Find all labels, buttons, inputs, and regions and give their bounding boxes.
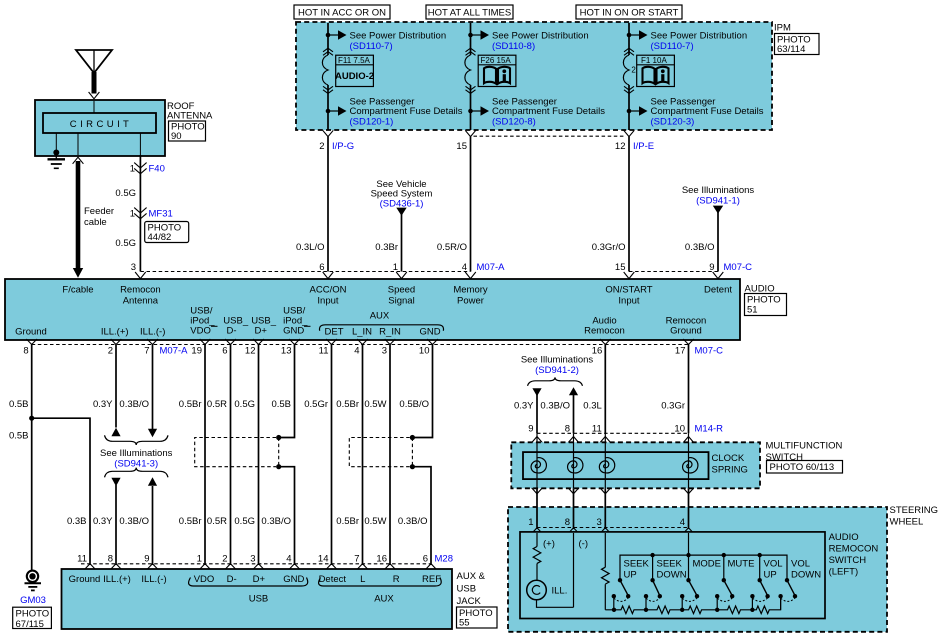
wires through clock spring — [537, 433, 689, 488]
switch MUTE — [715, 578, 734, 610]
connector M14-R dashed line — [537, 432, 689, 434]
svg-text:DET: DET — [325, 327, 344, 338]
svg-text:PHOTO 60/113: PHOTO 60/113 — [770, 462, 835, 473]
feeder cable (thick coax) — [76, 161, 81, 269]
svg-text:ACC/ON: ACC/ON — [310, 285, 347, 296]
USB group bracket (jack side) — [189, 578, 308, 587]
steering wires over box — [537, 507, 689, 528]
wire fuse column 1 — [327, 23, 329, 130]
svg-text:USB: USB — [249, 594, 269, 605]
svg-text:ILL.: ILL. — [552, 586, 568, 597]
fuse label box F1 with book icon — [637, 55, 675, 86]
svg-text:3: 3 — [250, 554, 255, 565]
wire fuse column 2 — [470, 23, 472, 130]
svg-text:0.3B/O: 0.3B/O — [119, 516, 149, 527]
svg-text:M28: M28 — [435, 554, 453, 565]
audio unit box — [5, 279, 740, 340]
svg-text:0.3L/O: 0.3L/O — [296, 242, 325, 253]
connector M07-A dashed line — [140, 271, 470, 273]
pin 15 chevron — [465, 130, 476, 136]
clock spring coil 4 — [683, 458, 698, 473]
svg-text:ILL.(-): ILL.(-) — [140, 327, 165, 338]
switch SEEK DOWN — [644, 578, 662, 610]
shield dashed box USB — [195, 438, 276, 467]
svg-text:0.5Br: 0.5Br — [336, 516, 359, 527]
power label HOT IN ACC OR ON — [294, 5, 390, 19]
wire 3 lead with resistor — [604, 533, 606, 610]
arrow into speed wire — [396, 208, 406, 216]
shield dashed box AUX — [349, 438, 409, 467]
svg-text:0.5W: 0.5W — [364, 516, 386, 527]
wire ILL(-) 0.3B/O upper — [152, 345, 154, 430]
svg-text:12: 12 — [615, 141, 626, 152]
svg-text:UP: UP — [624, 570, 637, 581]
svg-text:VOL: VOL — [791, 559, 810, 570]
svg-text:R_IN: R_IN — [379, 327, 401, 338]
svg-text:0.5R/O: 0.5R/O — [437, 242, 467, 253]
svg-text:D+: D+ — [253, 574, 266, 585]
brace lower SD941-3 — [105, 468, 169, 478]
svg-text:(SD120-1): (SD120-1) — [350, 116, 394, 127]
svg-text:See Illuminations: See Illuminations — [682, 185, 755, 196]
svg-text:MULTIFUNCTION: MULTIFUNCTION — [766, 441, 843, 452]
switch MODE — [680, 578, 699, 610]
svg-text:ILL.(+): ILL.(+) — [101, 327, 129, 338]
svg-text:ANTENNA: ANTENNA — [167, 111, 213, 122]
wire AUX GND 0.5B/O with shield drain — [412, 345, 432, 564]
ground at roof antenna — [53, 150, 59, 156]
clock spring coil 1 — [531, 458, 546, 473]
svg-text:3: 3 — [131, 262, 136, 273]
svg-text:AUDIO: AUDIO — [829, 532, 859, 543]
svg-text:0.3B: 0.3B — [67, 516, 87, 527]
jack pin chevrons — [85, 564, 437, 570]
svg-text:16: 16 — [376, 554, 387, 565]
clock spring pin chevrons bottom — [532, 488, 694, 494]
svg-text:AUX: AUX — [374, 594, 394, 605]
svg-text:0.5B: 0.5B — [9, 399, 29, 410]
svg-text:0.5R: 0.5R — [207, 399, 227, 410]
svg-text:GND: GND — [419, 327, 440, 338]
shield drain nodes AUX — [410, 435, 415, 440]
svg-text:AUDIO-2: AUDIO-2 — [335, 71, 374, 82]
pin 12 chevron I/P-E — [624, 130, 635, 136]
svg-text:0.3Y: 0.3Y — [93, 516, 113, 527]
wire 4 lead — [688, 533, 690, 555]
svg-text:4: 4 — [286, 554, 291, 565]
svg-text:0.5B: 0.5B — [9, 431, 29, 442]
svg-text:0.5G: 0.5G — [234, 399, 255, 410]
svg-text:2: 2 — [108, 346, 113, 357]
wire to lamp — [536, 564, 538, 581]
svg-text:0.3L: 0.3L — [583, 401, 602, 412]
svg-text:I/P-G: I/P-G — [332, 141, 354, 152]
feeder cable arrowhead into audio — [73, 268, 83, 278]
svg-text:9: 9 — [528, 424, 533, 435]
photo ref 55 — [457, 607, 498, 629]
audio bottom pin chevrons — [26, 339, 693, 345]
svg-text:MF31: MF31 — [149, 208, 173, 219]
svg-text:19: 19 — [191, 346, 202, 357]
svg-text:VDO: VDO — [194, 574, 215, 585]
svg-text:See Power Distribution: See Power Distribution — [492, 30, 589, 41]
svg-text:2: 2 — [222, 554, 227, 565]
svg-text:WHEEL: WHEEL — [890, 517, 924, 528]
circuit block — [43, 113, 156, 133]
svg-text:8: 8 — [565, 424, 570, 435]
svg-text:8: 8 — [565, 517, 570, 528]
wire ACC/ON input 0.3L/O — [327, 137, 329, 272]
node junction col3 top — [627, 33, 632, 38]
svg-text:See Power Distribution: See Power Distribution — [350, 30, 447, 41]
svg-text:HOT IN ON OR START: HOT IN ON OR START — [580, 8, 679, 19]
svg-text:IPM: IPM — [774, 23, 791, 34]
svg-text:AUX: AUX — [370, 311, 390, 322]
wire branch 0.3B to jack ground — [32, 418, 90, 564]
svg-text:M07-C: M07-C — [695, 346, 724, 357]
svg-text:DOWN: DOWN — [791, 570, 821, 581]
svg-text:6: 6 — [423, 554, 428, 565]
svg-text:63/114: 63/114 — [777, 44, 805, 55]
wire memory power 0.5R/O — [470, 137, 472, 272]
node junction col1 bottom — [326, 109, 331, 114]
svg-text:4: 4 — [354, 346, 359, 357]
shield drain nodes — [276, 435, 281, 440]
svg-text:(-): (-) — [579, 539, 589, 550]
svg-text:Speed: Speed — [388, 285, 415, 296]
svg-text:0.5R: 0.5R — [207, 516, 227, 527]
svg-text:8: 8 — [108, 554, 113, 565]
svg-text:0.5Br: 0.5Br — [336, 399, 359, 410]
svg-text:11: 11 — [592, 424, 602, 435]
svg-text:REF: REF — [422, 574, 441, 585]
svg-text:(SD110-7): (SD110-7) — [651, 41, 694, 52]
svg-text:I/P-E: I/P-E — [633, 141, 654, 152]
svg-text:AUX &: AUX & — [457, 571, 486, 582]
wire ground 0.5B from audio pin 8 — [31, 345, 33, 571]
svg-text:1: 1 — [130, 208, 135, 219]
svg-text:HOT IN ACC OR ON: HOT IN ACC OR ON — [298, 8, 386, 19]
arrow up illum return — [569, 387, 578, 395]
svg-text:DOWN: DOWN — [657, 570, 687, 581]
svg-text:F11 7.5A: F11 7.5A — [338, 56, 371, 65]
svg-text:0.5B/O: 0.5B/O — [399, 399, 429, 410]
svg-text:Detent: Detent — [704, 285, 732, 296]
svg-text:F26 15A: F26 15A — [481, 56, 512, 65]
steering wheel (dashed box) — [508, 507, 887, 632]
svg-text:Input: Input — [317, 296, 338, 307]
svg-text:JACK: JACK — [457, 596, 482, 607]
svg-text:CLOCK: CLOCK — [712, 453, 745, 464]
svg-text:12: 12 — [245, 346, 256, 357]
resistor ILL — [533, 547, 541, 564]
lamp return wire — [537, 600, 574, 608]
svg-text:cable: cable — [84, 217, 107, 228]
svg-text:C I R C U I T: C I R C U I T — [70, 119, 129, 130]
clock spring pin chevrons top — [532, 437, 694, 443]
wire detent 0.3B/O — [717, 212, 719, 272]
wire ill- lead — [573, 533, 575, 607]
lamp ILL — [527, 580, 547, 600]
svg-text:90: 90 — [171, 131, 182, 142]
resistor ladder — [605, 596, 780, 613]
wire ILL(-) 0.3B/O lower — [152, 486, 154, 564]
svg-text:GND: GND — [283, 326, 304, 337]
svg-text:Ground: Ground — [15, 327, 47, 338]
wire USB GND 0.5B with shield drain — [279, 345, 295, 564]
svg-text:F1 10A: F1 10A — [641, 56, 667, 65]
svg-text:REMOCON: REMOCON — [829, 544, 879, 555]
svg-text:SEEK: SEEK — [624, 559, 650, 570]
antenna lead (thick) — [92, 72, 97, 94]
svg-text:14: 14 — [318, 554, 329, 565]
photo ref 90 — [169, 121, 206, 142]
svg-text:M14-R: M14-R — [695, 424, 724, 435]
node junction ground branch — [29, 416, 34, 421]
svg-text:Ground: Ground — [69, 574, 101, 585]
svg-text:0.5Gr: 0.5Gr — [304, 399, 328, 410]
AUX group bracket (jack side) — [319, 578, 442, 587]
photo ref 67/115 — [13, 607, 52, 630]
clock spring coil 2 — [568, 458, 583, 473]
svg-text:0.5W: 0.5W — [364, 399, 386, 410]
connector dashed line audio bottom — [32, 344, 689, 346]
node junction col2 bottom — [468, 109, 473, 114]
svg-text:D-: D- — [227, 574, 237, 585]
audio remocon switch box — [520, 532, 825, 619]
inline connector chevrons above fuse F26 — [466, 48, 476, 55]
svg-text:UP: UP — [764, 570, 777, 581]
wire AUX detect 0.5Gr — [331, 345, 333, 564]
svg-text:M07-C: M07-C — [724, 262, 753, 273]
wire 0.3B/O to clock spring — [573, 395, 575, 434]
wire AUX L 0.5Br — [362, 345, 364, 564]
svg-text:Ground: Ground — [670, 326, 702, 337]
see power distribution arrow col2 — [471, 34, 481, 36]
svg-text:1: 1 — [130, 163, 135, 174]
svg-text:0.5B: 0.5B — [271, 399, 291, 410]
svg-text:(SD120-3): (SD120-3) — [651, 116, 695, 127]
svg-text:ILL.(-): ILL.(-) — [141, 574, 166, 585]
fuse label box AUDIO-2 — [335, 55, 374, 86]
svg-text:(+): (+) — [543, 539, 555, 550]
brace SD941-2 — [528, 377, 583, 385]
wire ON/START input 0.3Gr/O — [628, 137, 630, 272]
resistor wire3 — [602, 567, 610, 584]
svg-text:L_IN: L_IN — [352, 327, 372, 338]
svg-text:7: 7 — [354, 554, 359, 565]
remocon pin chevrons — [532, 528, 694, 534]
svg-text:9: 9 — [144, 554, 149, 565]
fuse F11 7.5A — [322, 55, 328, 85]
svg-text:0.3Y: 0.3Y — [514, 401, 534, 412]
inline connector chevrons below fuse F26 — [466, 86, 476, 93]
arrow into detent wire — [713, 206, 723, 214]
svg-text:44/82: 44/82 — [148, 232, 172, 243]
svg-text:VOL: VOL — [764, 559, 783, 570]
svg-text:0.3Br: 0.3Br — [375, 242, 398, 253]
svg-text:USB: USB — [457, 584, 477, 595]
wire AUX R 0.5W — [389, 345, 391, 564]
remocon connector dashed line — [537, 527, 689, 529]
wire 0.3Y to clock spring — [536, 395, 538, 434]
svg-text:Feeder: Feeder — [84, 206, 114, 217]
svg-text:0.3B/O: 0.3B/O — [119, 399, 149, 410]
svg-text:Signal: Signal — [388, 296, 414, 307]
see passenger fuse arrow col2 — [471, 110, 481, 112]
inline connector chevrons above fuse F1 — [624, 48, 634, 55]
svg-text:SWITCH: SWITCH — [829, 555, 867, 566]
svg-text:R: R — [393, 574, 400, 585]
inline connector chevrons above fuse F11 — [323, 48, 333, 55]
svg-text:See Illuminations: See Illuminations — [100, 448, 173, 459]
connector I/P-E dashed line — [474, 135, 626, 137]
clock spring inner box — [523, 452, 709, 479]
node junction col2 top — [468, 33, 473, 38]
wire USB D+ 0.5G — [258, 345, 260, 564]
svg-text:11: 11 — [77, 554, 87, 565]
svg-text:See Power Distribution: See Power Distribution — [651, 30, 748, 41]
svg-text:1: 1 — [528, 517, 533, 528]
svg-text:0.5Br: 0.5Br — [179, 399, 202, 410]
svg-text:M07-A: M07-A — [160, 346, 189, 357]
svg-text:Input: Input — [618, 296, 639, 307]
svg-text:Detect: Detect — [319, 574, 347, 585]
svg-text:(LEFT): (LEFT) — [829, 567, 859, 578]
wire ILL(+) 0.3Y upper — [115, 345, 117, 428]
svg-text:0.3B/O: 0.3B/O — [261, 516, 291, 527]
svg-text:0.5G: 0.5G — [115, 238, 136, 249]
roof antenna box — [35, 100, 165, 156]
svg-text:7: 7 — [144, 346, 149, 357]
svg-text:15: 15 — [615, 262, 626, 273]
svg-text:16: 16 — [592, 346, 603, 357]
svg-text:0.5G: 0.5G — [115, 188, 136, 199]
svg-text:GND: GND — [283, 574, 304, 585]
svg-text:0.3B/O: 0.3B/O — [398, 516, 428, 527]
connector M07-C dashed line — [629, 271, 718, 273]
see passenger fuse arrow col3 — [629, 110, 639, 112]
photo ref 44/82 — [145, 222, 189, 244]
aux and usb jack box — [62, 569, 453, 629]
svg-text:(SD110-7): (SD110-7) — [350, 41, 393, 52]
svg-text:1: 1 — [197, 554, 202, 565]
inline connector chevrons below fuse F1 — [624, 86, 634, 93]
svg-text:ILL.(+): ILL.(+) — [103, 574, 131, 585]
arrow up from jack ILL(-) — [148, 477, 157, 486]
svg-text:0.5G: 0.5G — [234, 516, 255, 527]
wire USB D- 0.5R — [230, 345, 232, 564]
see passenger fuse arrow col1 — [328, 110, 338, 112]
svg-text:2: 2 — [631, 66, 636, 75]
svg-text:See Illuminations: See Illuminations — [521, 355, 594, 366]
svg-text:AUDIO: AUDIO — [745, 284, 775, 295]
svg-text:(SD941-1): (SD941-1) — [696, 196, 740, 207]
svg-text:0.3B/O: 0.3B/O — [540, 401, 570, 412]
svg-text:Remocon: Remocon — [584, 326, 625, 337]
svg-text:4: 4 — [680, 517, 685, 528]
svg-text:0.3Gr/O: 0.3Gr/O — [592, 242, 626, 253]
node junction col1 top — [326, 33, 331, 38]
svg-text:F/cable: F/cable — [62, 285, 93, 296]
svg-text:3: 3 — [597, 517, 602, 528]
svg-text:D-: D- — [227, 326, 237, 337]
svg-text:0.3B/O: 0.3B/O — [685, 242, 715, 253]
svg-text:Antenna: Antenna — [123, 296, 159, 307]
svg-text:ON/START: ON/START — [605, 285, 652, 296]
photo ref 60/113 — [767, 461, 843, 474]
svg-text:VDO: VDO — [190, 326, 211, 337]
svg-text:D+: D+ — [255, 326, 268, 337]
connector M28 dashed line — [81, 563, 431, 565]
svg-text:10: 10 — [419, 346, 430, 357]
ladder tap nodes — [612, 608, 616, 612]
inline connector chevrons below fuse F11 — [323, 86, 333, 93]
wires clock spring to steering wheel — [537, 488, 689, 527]
svg-text:F40: F40 — [149, 163, 165, 174]
svg-text:0.3Y: 0.3Y — [93, 399, 113, 410]
feeder cable chevron up — [73, 157, 84, 164]
wire remocon antenna 0.5G — [139, 155, 141, 272]
svg-text:13: 13 — [281, 346, 292, 357]
internal leads — [93, 101, 95, 113]
svg-text:Remocon: Remocon — [120, 285, 161, 296]
switch VOL UP — [750, 578, 770, 610]
svg-text:Memory: Memory — [453, 285, 488, 296]
svg-text:M07-A: M07-A — [477, 262, 506, 273]
power label HOT AT ALL TIMES — [426, 5, 513, 19]
switch common rail — [620, 555, 787, 580]
svg-text:55: 55 — [459, 618, 470, 629]
wire ill+ lead — [536, 533, 538, 547]
ground GM03 — [27, 571, 38, 582]
fuse label box F26 with book icon — [478, 55, 516, 86]
antenna mast symbol — [76, 50, 112, 73]
wire fuse column 3 — [628, 23, 630, 130]
wire USB VDO 0.5Br — [204, 345, 206, 564]
svg-text:51: 51 — [747, 305, 758, 316]
inline connector F40 — [134, 163, 146, 174]
arrowhead into roof antenna box — [89, 92, 100, 99]
svg-text:SPRING: SPRING — [712, 465, 748, 476]
svg-text:STEERING: STEERING — [890, 505, 939, 516]
brace upper SD941-3 — [105, 435, 169, 445]
fuse F26 15A — [465, 55, 471, 85]
see power distribution arrow col1 — [328, 34, 338, 36]
pin 2 chevron I/P-G — [323, 130, 334, 136]
see power distribution arrow col3 — [629, 34, 639, 36]
svg-text:11: 11 — [319, 346, 329, 357]
svg-text:(SD110-8): (SD110-8) — [492, 41, 535, 52]
svg-text:6: 6 — [222, 346, 227, 357]
arrow up ILL(+) — [111, 428, 120, 437]
IPM smart junction box (dashed) — [296, 22, 772, 130]
wire 0.3Gr remocon ground — [688, 345, 690, 434]
fuse F1 10A — [623, 55, 629, 85]
svg-text:MUTE: MUTE — [728, 559, 755, 570]
svg-text:SEEK: SEEK — [657, 559, 683, 570]
inline connector MF31 — [134, 208, 146, 219]
wire speed signal 0.3Br — [401, 214, 403, 272]
svg-text:10: 10 — [674, 424, 685, 435]
switch SEEK UP — [612, 578, 631, 610]
svg-text:3: 3 — [382, 346, 387, 357]
svg-text:Power: Power — [457, 296, 484, 307]
svg-text:HOT AT ALL TIMES: HOT AT ALL TIMES — [428, 8, 511, 19]
svg-text:MODE: MODE — [693, 559, 722, 570]
node junction col3 bottom — [627, 109, 632, 114]
clock spring coil 3 — [599, 458, 614, 473]
